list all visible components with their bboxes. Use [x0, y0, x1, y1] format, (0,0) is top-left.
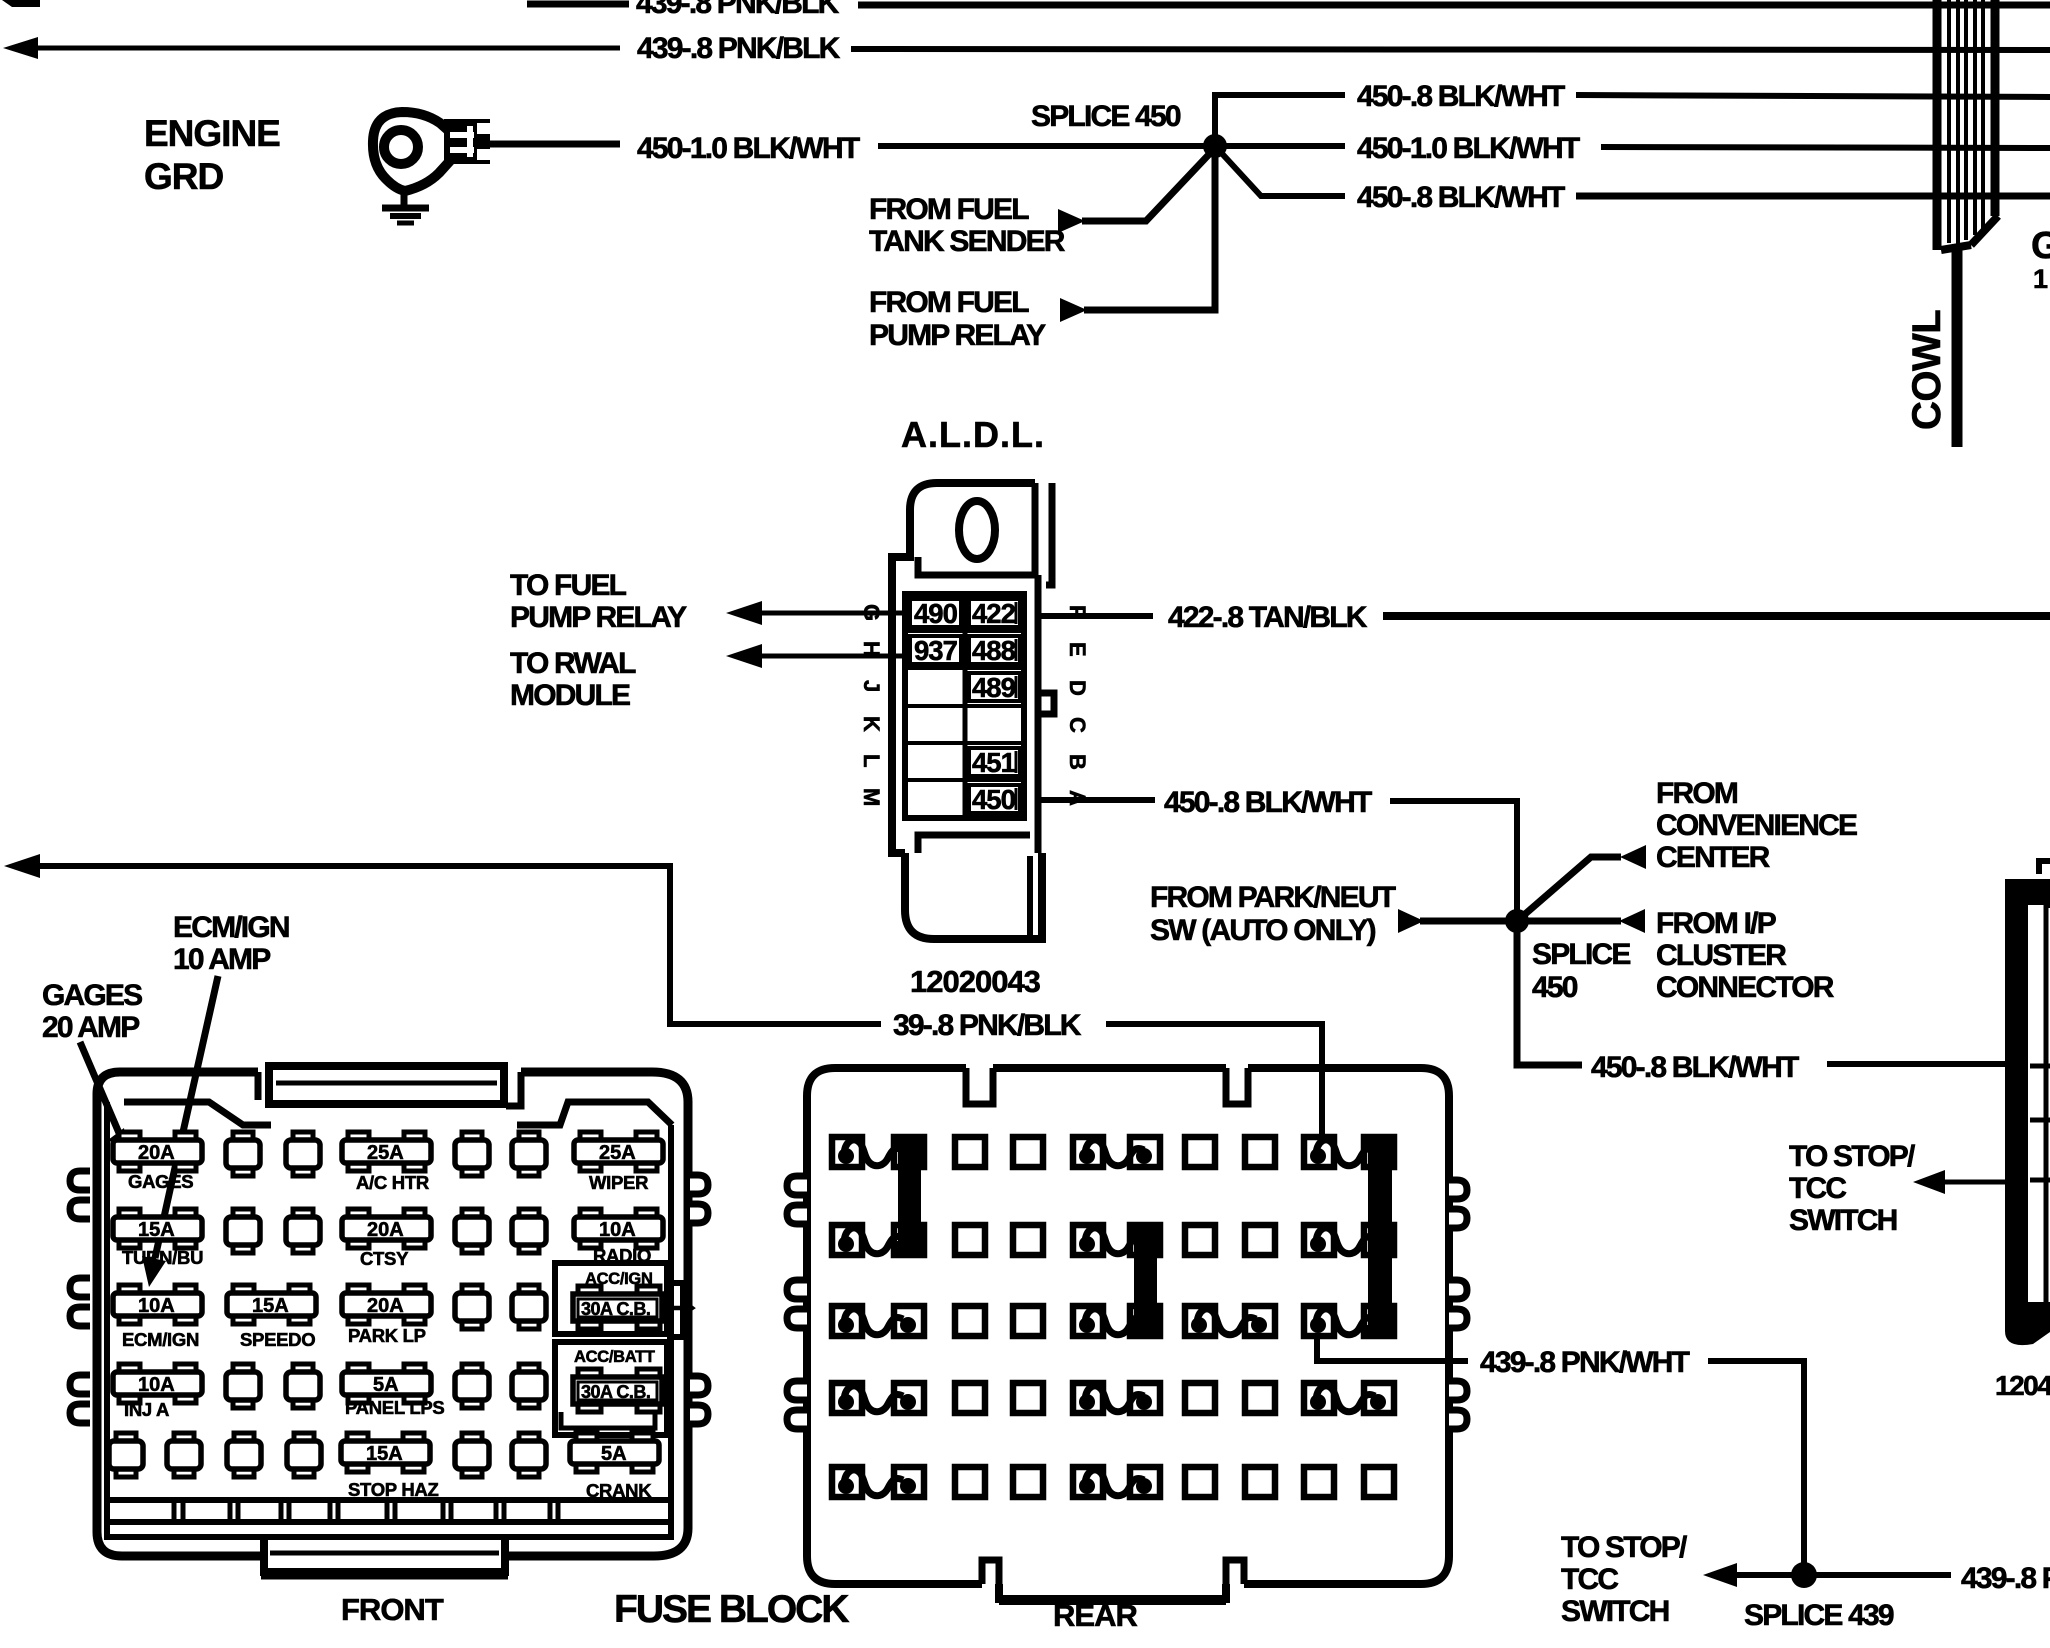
svg-text:TO STOP/: TO STOP/ — [1789, 1140, 1916, 1173]
svg-text:1: 1 — [2033, 264, 2048, 294]
svg-text:PANEL LPS: PANEL LPS — [345, 1397, 444, 1418]
svg-text:PUMP RELAY: PUMP RELAY — [510, 601, 687, 634]
wire 439-.8 PNK/BLK (second) — [3, 32, 2050, 65]
svg-text:FROM PARK/NEUT: FROM PARK/NEUT — [1150, 881, 1396, 914]
svg-text:30A C.B.: 30A C.B. — [581, 1382, 650, 1402]
svg-text:439-.8 PNK/BLK: 439-.8 PNK/BLK — [636, 0, 840, 20]
wire to stop/tcc switch (lower) — [1703, 1563, 1951, 1587]
svg-text:451: 451 — [972, 747, 1016, 778]
ring terminal (engine ground) — [373, 112, 620, 191]
rear row2 squares — [832, 1225, 862, 1255]
fuse 10A ECM/IGN — [113, 1285, 202, 1324]
svg-text:450: 450 — [972, 784, 1016, 815]
svg-text:FROM FUEL: FROM FUEL — [869, 193, 1029, 226]
svg-text:CONVENIENCE: CONVENIENCE — [1656, 809, 1857, 842]
svg-text:CENTER: CENTER — [1656, 841, 1771, 874]
blank fuses row2 — [226, 1209, 260, 1253]
svg-text:15A: 15A — [252, 1295, 289, 1317]
pin 451 — [969, 747, 1020, 778]
svg-text:25A: 25A — [367, 1142, 404, 1164]
svg-text:490: 490 — [914, 598, 958, 629]
svg-text:30A C.B.: 30A C.B. — [581, 1299, 650, 1319]
svg-text:L: L — [859, 754, 884, 767]
svg-text:SPLICE: SPLICE — [1532, 938, 1630, 971]
svg-text:10A: 10A — [599, 1219, 636, 1241]
rear row1 squares — [832, 1137, 862, 1167]
svg-text:450-.8 BLK/WHT: 450-.8 BLK/WHT — [1357, 80, 1565, 113]
rear block left hooks — [787, 1176, 807, 1429]
svg-text:ENGINE: ENGINE — [144, 113, 280, 154]
svg-text:FROM I/P: FROM I/P — [1656, 907, 1776, 940]
svg-text:10 AMP: 10 AMP — [173, 943, 270, 976]
svg-text:COWL: COWL — [1905, 310, 1949, 430]
pin 488 — [969, 635, 1020, 666]
terminal strip — [107, 1500, 671, 1522]
svg-text:15A: 15A — [138, 1219, 175, 1241]
pin letters G H J K L M (left) — [859, 604, 884, 806]
svg-text:10A: 10A — [138, 1295, 175, 1317]
rear row4 traces — [844, 1386, 903, 1412]
svg-text:SWITCH: SWITCH — [1789, 1204, 1897, 1237]
svg-text:K: K — [859, 716, 884, 732]
svg-text:TANK SENDER: TANK SENDER — [869, 225, 1066, 258]
rear busbar col6 — [1134, 1229, 1157, 1335]
pin letters F E D C B A (right) — [1065, 605, 1090, 806]
fuse 10A INJ A — [113, 1364, 202, 1403]
blank fuses row1 right — [455, 1132, 489, 1176]
rear row1 traces — [844, 1140, 903, 1166]
fuse 20A CTSY — [342, 1209, 431, 1248]
fuse 20A GAGES — [113, 1132, 202, 1171]
svg-text:439-.8 PNK/BLK: 439-.8 PNK/BLK — [637, 32, 841, 65]
blank fuses row1 — [226, 1132, 260, 1176]
wire from i/p cluster connector — [1517, 909, 1645, 933]
svg-text:422: 422 — [972, 598, 1016, 629]
svg-text:TURN/BU: TURN/BU — [122, 1247, 203, 1268]
rear busbar col2 — [898, 1141, 921, 1253]
cowl connector bundle (top right) — [1937, 0, 1998, 250]
blank fuses row5 — [109, 1433, 143, 1477]
blank fuses row2 right — [455, 1209, 489, 1253]
blank fuses row4 right — [455, 1364, 489, 1408]
svg-text:B: B — [1065, 754, 1090, 770]
leader gages to 20A fuse — [80, 1042, 127, 1151]
svg-text:12020043: 12020043 — [910, 964, 1041, 999]
front block lid — [269, 1066, 504, 1104]
svg-text:GRD: GRD — [144, 156, 224, 197]
svg-text:M: M — [859, 788, 884, 806]
pin 490 — [910, 598, 961, 629]
wire 450-1.0 BLK/WHT (right) — [1357, 132, 2050, 165]
fuse 25A WIPER — [574, 1132, 663, 1171]
svg-text:E: E — [1065, 642, 1090, 657]
svg-text:489: 489 — [972, 672, 1016, 703]
svg-text:450-1.0 BLK/WHT: 450-1.0 BLK/WHT — [637, 132, 860, 165]
wire from fuel pump relay — [1060, 146, 1215, 322]
svg-text:WIPER: WIPER — [589, 1172, 648, 1193]
svg-text:G: G — [2031, 225, 2050, 267]
svg-text:CRANK: CRANK — [586, 1480, 652, 1501]
wire 422-.8 TAN/BLK (pin F) — [1040, 601, 2050, 634]
wire to stop/tcc switch (upper) — [1913, 1170, 2006, 1194]
svg-text:REAR: REAR — [1053, 1598, 1137, 1633]
wire pin G to fuel pump relay — [726, 601, 905, 625]
splice 450 junction (lower) — [1505, 909, 1529, 933]
fuse 5A CRANK — [570, 1433, 659, 1472]
wire 439-.8 PNK/BLK (top, cut off) — [2, 0, 2050, 20]
blank fuses row4 — [226, 1364, 260, 1408]
svg-text:20A: 20A — [367, 1295, 404, 1317]
svg-text:SWITCH: SWITCH — [1561, 1595, 1669, 1628]
svg-text:FROM FUEL: FROM FUEL — [869, 286, 1029, 319]
svg-text:C: C — [1065, 717, 1090, 733]
pin 937 — [910, 635, 961, 666]
svg-text:MODULE: MODULE — [510, 679, 630, 712]
rear block outline — [807, 1068, 1449, 1600]
svg-text:TO RWAL: TO RWAL — [510, 647, 636, 680]
rear row5 traces — [844, 1470, 903, 1496]
rear row5 squares — [832, 1467, 862, 1497]
front block right tabs — [690, 1175, 708, 1424]
svg-text:CTSY: CTSY — [360, 1248, 409, 1269]
svg-text:ECM/IGN: ECM/IGN — [173, 911, 289, 944]
rear row3 traces — [844, 1309, 903, 1335]
svg-text:10A: 10A — [138, 1374, 175, 1396]
pin 422 — [969, 598, 1020, 629]
connector body (cut at right edge) — [2005, 861, 2050, 1345]
svg-text:SPLICE 439: SPLICE 439 — [1744, 1599, 1894, 1632]
svg-text:CLUSTER: CLUSTER — [1656, 939, 1787, 972]
svg-text:12040: 12040 — [1995, 1370, 2050, 1401]
wire 450-.8 BLK/WHT (pin A) — [1040, 786, 1517, 921]
fuse 25A A/C HTR — [342, 1132, 431, 1171]
svg-text:439-.8 PNK/WHT: 439-.8 PNK/WHT — [1480, 1346, 1690, 1379]
svg-text:20A: 20A — [367, 1219, 404, 1241]
svg-text:39-.8 PNK/BLK: 39-.8 PNK/BLK — [893, 1009, 1082, 1042]
svg-text:450-1.0 BLK/WHT: 450-1.0 BLK/WHT — [1357, 132, 1580, 165]
svg-text:FROM: FROM — [1656, 777, 1737, 810]
svg-text:FRONT: FRONT — [341, 1592, 444, 1627]
svg-text:5A: 5A — [601, 1443, 627, 1465]
rear row3 squares — [832, 1306, 862, 1336]
leader ecm/ign to 10A fuse — [142, 976, 218, 1287]
front block left tabs — [70, 1171, 90, 1423]
svg-text:PARK LP: PARK LP — [348, 1325, 426, 1346]
cowl wire stem — [1952, 250, 1963, 447]
svg-text:450-.8 BLK/WHT: 450-.8 BLK/WHT — [1357, 181, 1565, 214]
svg-text:450: 450 — [1532, 971, 1578, 1004]
svg-text:422-.8 TAN/BLK: 422-.8 TAN/BLK — [1168, 601, 1368, 634]
wire pin H to RWAL module — [726, 644, 905, 668]
wire from fuel tank sender — [1058, 148, 1215, 233]
svg-text:INJ A: INJ A — [124, 1399, 169, 1420]
svg-text:J: J — [859, 680, 884, 692]
svg-text:488: 488 — [972, 635, 1016, 666]
svg-text:TCC: TCC — [1561, 1563, 1618, 1596]
ground symbol — [382, 190, 429, 223]
svg-text:FUSE BLOCK: FUSE BLOCK — [614, 1588, 849, 1631]
rear row2 traces — [844, 1228, 903, 1254]
svg-text:TO FUEL: TO FUEL — [510, 569, 627, 602]
fuse 15A TURN/BU — [113, 1209, 202, 1248]
wire from convenience center — [1517, 845, 1646, 921]
svg-text:GAGES: GAGES — [128, 1171, 193, 1192]
svg-text:20A: 20A — [138, 1142, 175, 1164]
svg-text:5A: 5A — [373, 1374, 399, 1396]
blank fuses row5 right — [455, 1433, 489, 1477]
svg-text:20 AMP: 20 AMP — [42, 1011, 139, 1044]
svg-text:937: 937 — [914, 635, 958, 666]
fuse 15A STOP HAZ — [341, 1433, 430, 1472]
fuse 20A PARK LP — [342, 1285, 431, 1324]
svg-text:450-.8 BLK/WHT: 450-.8 BLK/WHT — [1164, 786, 1372, 819]
svg-text:450-.8 BLK/WHT: 450-.8 BLK/WHT — [1591, 1051, 1799, 1084]
svg-text:439-.8 P: 439-.8 P — [1961, 1562, 2050, 1595]
front block outer case — [97, 1072, 688, 1575]
svg-text:SPEEDO: SPEEDO — [240, 1329, 315, 1350]
rear busbar col10 — [1368, 1141, 1392, 1335]
wire 450-.8 BLK/WHT (third) — [1215, 146, 2050, 214]
front block inner contour — [107, 1102, 672, 1537]
fuse 5A PANEL LPS — [342, 1364, 431, 1403]
svg-text:D: D — [1065, 680, 1090, 696]
blank fuses row3 — [455, 1285, 489, 1329]
svg-text:SW (AUTO ONLY): SW (AUTO ONLY) — [1150, 914, 1376, 947]
svg-text:ECM/IGN: ECM/IGN — [122, 1329, 199, 1350]
wire from park/neut sw — [1398, 909, 1517, 933]
svg-text:15A: 15A — [366, 1443, 403, 1465]
svg-text:SPLICE 450: SPLICE 450 — [1031, 100, 1181, 133]
rear row4 squares — [832, 1383, 862, 1413]
splice 450 junction — [1203, 134, 1227, 158]
wire 450-.8 BLK/WHT (top) — [1215, 80, 2050, 146]
svg-text:TO STOP/: TO STOP/ — [1561, 1531, 1688, 1564]
rear block right hooks — [1449, 1180, 1467, 1429]
svg-text:TCC: TCC — [1789, 1172, 1846, 1205]
splice 439 junction — [1791, 1562, 1817, 1588]
ACC/IGN 30A C.B. — [555, 1263, 692, 1337]
ACC/BATT 30A C.B. — [555, 1342, 667, 1435]
wire 450-.8 BLK/WHT to cowl connector — [1517, 921, 2008, 1084]
svg-text:GAGES: GAGES — [42, 979, 142, 1012]
svg-text:PUMP RELAY: PUMP RELAY — [869, 319, 1046, 352]
svg-text:A.L.D.L.: A.L.D.L. — [901, 414, 1045, 455]
svg-text:ACC/BATT: ACC/BATT — [574, 1348, 655, 1366]
svg-text:STOP HAZ: STOP HAZ — [348, 1479, 438, 1500]
svg-text:CONNECTOR: CONNECTOR — [1656, 971, 1835, 1004]
pin 450 — [969, 784, 1020, 815]
ALDL pin grid — [905, 594, 1024, 818]
fuse 15A SPEEDO — [227, 1285, 316, 1324]
svg-text:25A: 25A — [599, 1142, 636, 1164]
pin 489 — [969, 672, 1020, 703]
ALDL connector body — [892, 483, 1054, 939]
svg-text:A/C HTR: A/C HTR — [356, 1172, 429, 1193]
fuse 10A RADIO — [574, 1209, 663, 1248]
